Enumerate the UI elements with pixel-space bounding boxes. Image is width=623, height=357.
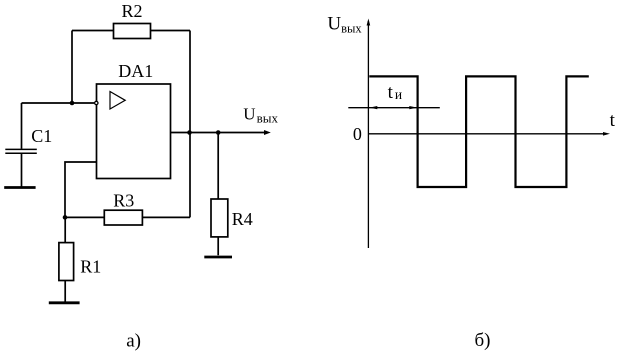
svg-text:R1: R1	[80, 257, 101, 277]
svg-text:DA1: DA1	[118, 61, 153, 81]
svg-text:Uвых: Uвых	[243, 104, 278, 125]
svg-text:б): б)	[475, 330, 491, 351]
svg-text:C1: C1	[31, 126, 52, 146]
svg-text:Uвых: Uвых	[327, 13, 362, 35]
svg-text:0: 0	[353, 124, 362, 144]
svg-text:R4: R4	[232, 209, 253, 229]
svg-text:R2: R2	[122, 1, 143, 21]
svg-text:tи: tи	[388, 82, 403, 103]
svg-text:а): а)	[126, 331, 141, 352]
svg-text:t: t	[610, 110, 616, 131]
svg-text:R3: R3	[113, 190, 134, 210]
